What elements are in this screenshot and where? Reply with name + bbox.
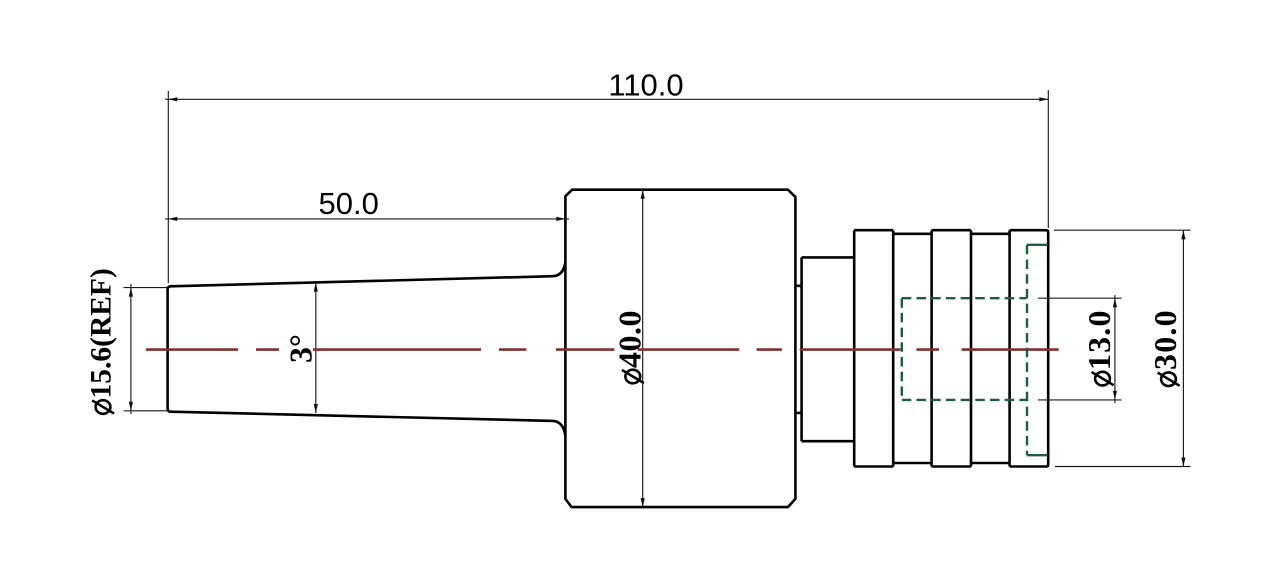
arrow phi13 top: [1113, 298, 1117, 307]
svg-text:40.0: 40.0: [612, 310, 648, 368]
arrow phi15.6 bottom: [129, 402, 133, 411]
ring vertical 3: [930, 230, 933, 466]
ext line right 110: [1047, 90, 1049, 228]
text phi40.0: [612, 310, 648, 383]
arrow phi40 top: [641, 190, 645, 199]
ext line phi30 bottom: [1055, 466, 1191, 468]
dim line 3deg: [315, 283, 317, 413]
neck bottom edge: [802, 440, 855, 443]
ring1 top: [854, 229, 893, 232]
arrow phi13 bottom: [1113, 391, 1117, 400]
counterbore left edge: [1026, 245, 1028, 455]
svg-text:50.0: 50.0: [319, 186, 379, 221]
ring vertical 1: [853, 230, 856, 466]
arrow 50 right: [556, 217, 565, 221]
taper shank outline: [168, 276, 553, 421]
svg-text:3°: 3°: [283, 334, 319, 363]
groove top 2: [971, 233, 1010, 236]
svg-text:13.0: 13.0: [1081, 309, 1117, 370]
ring2 bottom: [932, 465, 971, 468]
ring vertical 5: [1008, 230, 1011, 466]
ring vertical 4: [970, 230, 973, 466]
arrow 3deg top: [314, 283, 318, 292]
ring2 top: [932, 229, 971, 232]
groove top 1: [893, 233, 931, 236]
svg-text:110.0: 110.0: [608, 68, 683, 103]
text phi15.6(REF): [86, 268, 118, 414]
dim line 110.0: [165, 98, 1048, 100]
dim line phi40: [642, 190, 644, 507]
ext line phi15.6 top: [124, 287, 169, 289]
groove bottom 2: [971, 462, 1010, 465]
ext line left (110/50): [167, 91, 169, 283]
neck top edge: [802, 256, 855, 259]
arrow 110 left: [168, 97, 177, 101]
svg-text:30.0: 30.0: [1147, 309, 1183, 370]
groove bottom 1: [893, 462, 931, 465]
arrow phi40 bottom: [641, 498, 645, 507]
text phi13.0: [1081, 309, 1117, 385]
ring vertical 2: [892, 230, 895, 466]
neck left edge: [800, 257, 803, 441]
counterbore bottom: [1027, 454, 1048, 456]
undercut tick top: [795, 284, 801, 287]
arrow phi15.6 top: [129, 288, 133, 297]
text phi30.0: [1147, 309, 1183, 386]
ext line phi15.6 bottom: [124, 410, 169, 412]
taper top fillet: [553, 262, 565, 276]
arrow 3deg bottom: [314, 404, 318, 413]
bore phi13 bottom: [902, 399, 1027, 401]
dim line 50.0: [165, 218, 569, 220]
dim line phi30: [1182, 230, 1184, 466]
counterbore top: [1027, 244, 1048, 246]
ext line phi30 top: [1054, 229, 1191, 231]
dim line phi15.6: [130, 284, 132, 414]
undercut tick bottom: [795, 412, 801, 415]
ext line phi13 bottom: [1038, 399, 1122, 401]
dim line phi13: [1114, 295, 1116, 403]
arrow phi30 bottom: [1181, 458, 1185, 467]
last ring rounded right face: [1010, 230, 1049, 466]
bore phi13 top: [902, 297, 1027, 299]
centerline dashes: [146, 348, 238, 351]
ext line phi13 top: [1038, 297, 1122, 299]
svg-text:15.6(REF): 15.6(REF): [86, 268, 118, 398]
arrow 110 right: [1039, 97, 1048, 101]
taper bottom fillet: [553, 421, 565, 436]
ring1 bottom: [854, 465, 893, 468]
body phi40: [565, 190, 795, 507]
counterbore top/bottom (solid short hidden lines): [1027, 245, 1048, 455]
text 3deg: [283, 334, 319, 363]
arrow phi30 top: [1181, 230, 1185, 239]
arrow 50 left: [168, 217, 177, 221]
bore phi13 left edge: [901, 298, 903, 400]
